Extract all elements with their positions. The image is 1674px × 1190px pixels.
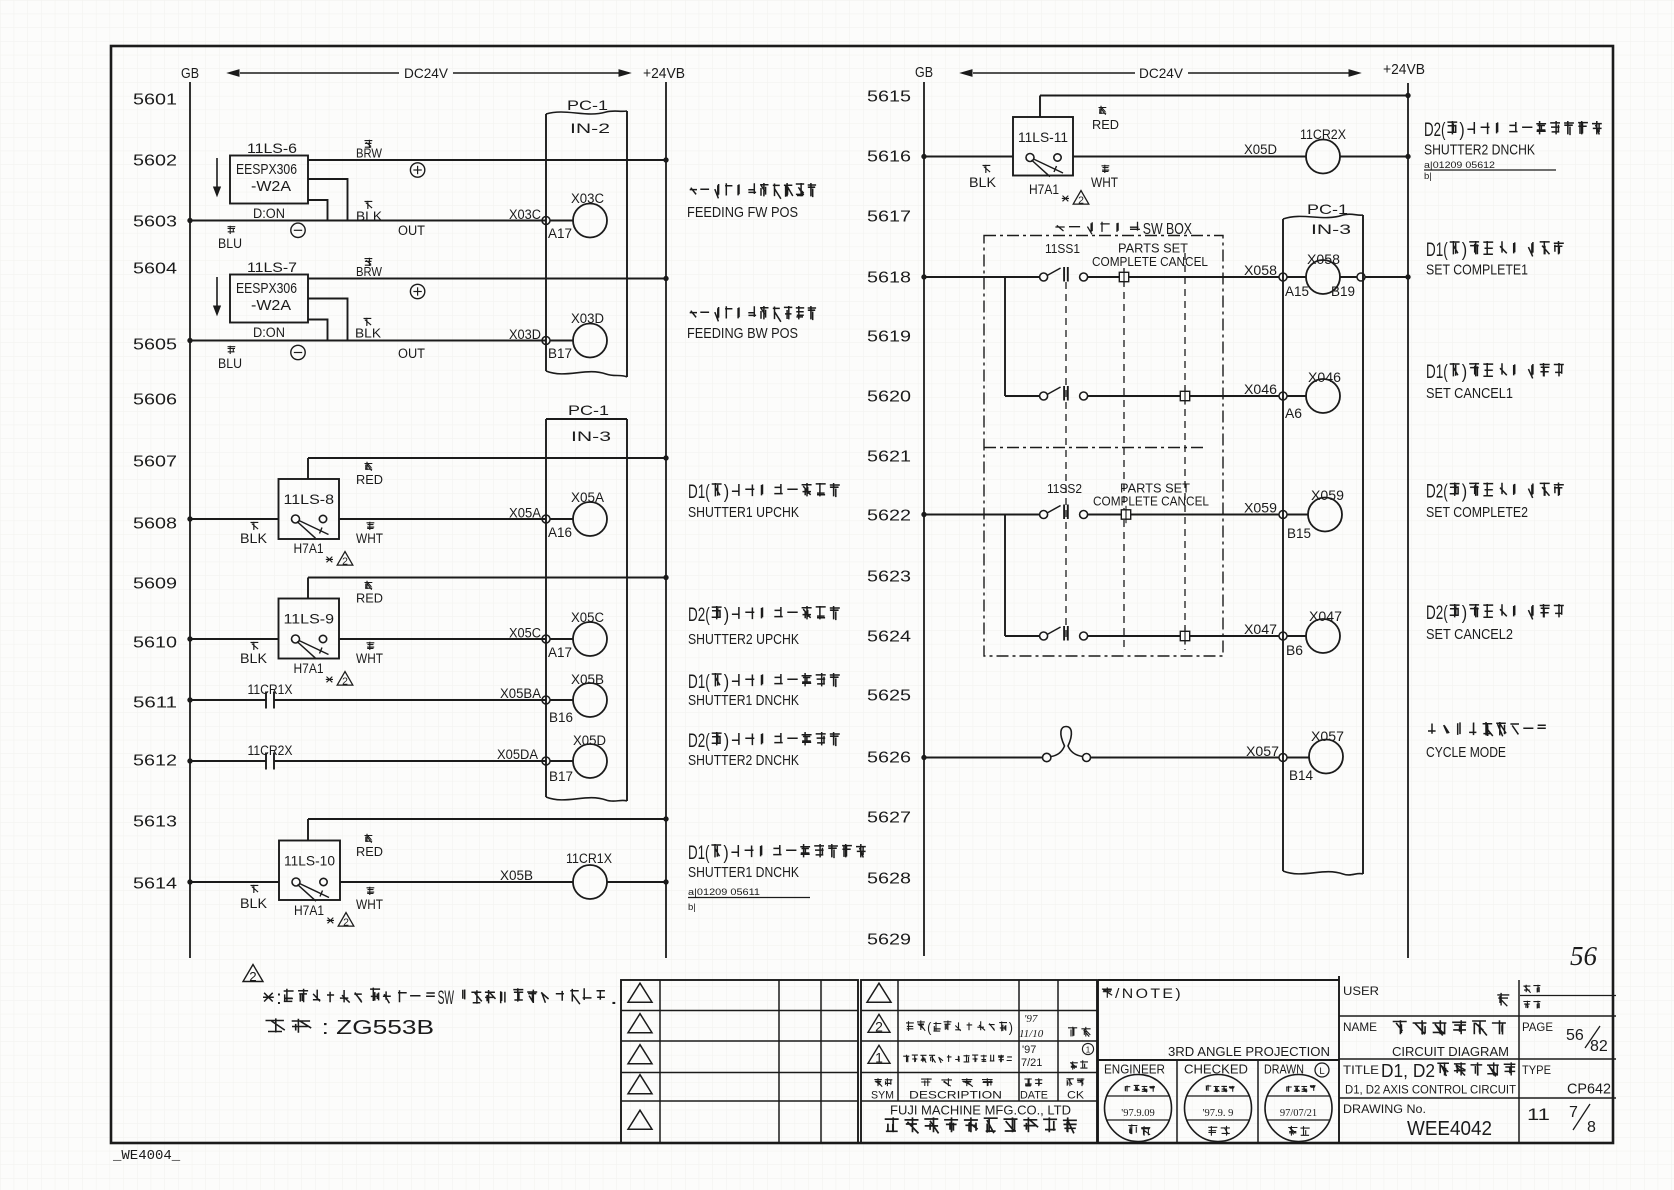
svg-text:A17: A17 bbox=[548, 226, 572, 241]
limit switch 11LS-11 (H7A1) bbox=[1013, 117, 1073, 176]
jumper loop (rung 5626) bbox=[1043, 753, 1051, 761]
connector PC-1 IN-2 bbox=[545, 114, 547, 371]
svg-text:SHUTTER2 UPCHK: SHUTTER2 UPCHK bbox=[688, 631, 799, 648]
svg-text:RED: RED bbox=[1092, 117, 1119, 132]
wire rung 5614 left (BLK) bbox=[190, 881, 279, 883]
svg-text:SET CANCEL1: SET CANCEL1 bbox=[1426, 385, 1513, 402]
svg-text:5610: 5610 bbox=[133, 635, 177, 652]
svg-text:2: 2 bbox=[342, 676, 348, 688]
revision table header SYM/DESCRIPTION/DATE/CK bbox=[874, 1078, 892, 1086]
svg-text:D1, D2: D1, D2 bbox=[1381, 1060, 1435, 1081]
svg-text:5623: 5623 bbox=[867, 569, 911, 586]
svg-text:DC24V: DC24V bbox=[404, 65, 449, 81]
revision triangle L5 bbox=[628, 1110, 652, 1129]
svg-text:SW: SW bbox=[438, 988, 454, 1009]
svg-text:1: 1 bbox=[1086, 1046, 1091, 1055]
svg-text:8: 8 bbox=[1587, 1119, 1596, 1136]
approval stamp \u6c5f\u5742 bbox=[1265, 1075, 1332, 1142]
note mark 2 (11LS-11) bbox=[1062, 196, 1069, 202]
svg-text:5629: 5629 bbox=[867, 932, 911, 949]
wire rung 5613 (RED) bbox=[308, 818, 666, 820]
svg-text:5612: 5612 bbox=[133, 753, 177, 770]
svg-text:OUT: OUT bbox=[398, 223, 425, 238]
svg-text:5611: 5611 bbox=[133, 695, 177, 712]
polarity mark + (5604) bbox=[410, 284, 424, 298]
svg-text:11CR1X: 11CR1X bbox=[566, 851, 612, 866]
svg-text:): ) bbox=[724, 731, 729, 752]
svg-text:X03C: X03C bbox=[509, 207, 541, 222]
svg-text:5609: 5609 bbox=[133, 576, 177, 593]
wire rung 5615 (RED) bbox=[1040, 95, 1408, 97]
svg-text:5615: 5615 bbox=[867, 89, 911, 106]
svg-text:): ) bbox=[724, 605, 729, 626]
function label SHUTTER1 UPCHK bbox=[712, 483, 840, 497]
svg-text:SET COMPLETE2: SET COMPLETE2 bbox=[1426, 504, 1528, 521]
svg-text:H7A1: H7A1 bbox=[294, 903, 324, 918]
svg-text:D1(: D1( bbox=[1426, 362, 1448, 383]
connector PC-1 IN-3 (right) bbox=[1282, 219, 1284, 871]
svg-text:11SS2: 11SS2 bbox=[1047, 481, 1082, 496]
function label SHUTTER2 DNCHK bbox=[712, 732, 840, 746]
function label FEEDING FW POS bbox=[690, 183, 816, 199]
svg-text:2: 2 bbox=[1078, 195, 1084, 207]
svg-text:5606: 5606 bbox=[133, 392, 177, 409]
connector PC-1 IN-3 (left) bbox=[546, 418, 627, 420]
svg-text:CYCLE MODE: CYCLE MODE bbox=[1426, 744, 1506, 761]
svg-text:D:ON: D:ON bbox=[253, 206, 285, 221]
handwritten note line 2 bbox=[266, 1018, 312, 1032]
svg-text:D2(: D2( bbox=[688, 605, 710, 626]
handwritten note line 1 bbox=[263, 988, 605, 1005]
approval stamp \u8db3\u7acb bbox=[1105, 1075, 1172, 1142]
svg-text:11LS-7: 11LS-7 bbox=[247, 259, 297, 275]
svg-text:): ) bbox=[1462, 362, 1467, 383]
wire rung 5608 left (BLK) bbox=[190, 518, 279, 520]
svg-text:5618: 5618 bbox=[867, 270, 911, 287]
svg-text:SHUTTER1 UPCHK: SHUTTER1 UPCHK bbox=[688, 504, 799, 521]
svg-text:-W2A: -W2A bbox=[251, 178, 291, 195]
wire rung 5602 (BRW) bbox=[308, 159, 666, 161]
function label CYCLE MODE bbox=[1428, 722, 1546, 736]
svg-text:11LS-11: 11LS-11 bbox=[1018, 129, 1068, 145]
limit switch 11LS-8 (H7A1) bbox=[279, 479, 340, 539]
wire rung 5622 bbox=[924, 514, 1040, 516]
wire rung 5616 left (BLK) bbox=[924, 156, 1013, 158]
svg-text:GB: GB bbox=[915, 65, 933, 81]
svg-text:5621: 5621 bbox=[867, 449, 911, 466]
svg-text:B16: B16 bbox=[549, 710, 573, 725]
svg-text:B15: B15 bbox=[1287, 526, 1311, 541]
svg-text:56: 56 bbox=[1570, 941, 1598, 971]
svg-text:'97: '97 bbox=[1024, 1013, 1038, 1025]
svg-text:5626: 5626 bbox=[867, 750, 911, 767]
approval stamp \u5c71\u672c bbox=[1185, 1075, 1252, 1142]
svg-text:X059: X059 bbox=[1244, 501, 1277, 516]
wire rung 5608 right (WHT) bbox=[339, 518, 546, 520]
wire rung 5609 (RED) bbox=[308, 577, 666, 579]
svg-text:X05D: X05D bbox=[573, 733, 606, 748]
svg-text:-W2A: -W2A bbox=[251, 297, 291, 314]
svg-text:): ) bbox=[724, 482, 729, 503]
svg-text:H7A1: H7A1 bbox=[294, 541, 324, 556]
svg-text:PAGE: PAGE bbox=[1522, 1020, 1553, 1034]
svg-text:5604: 5604 bbox=[133, 261, 177, 278]
svg-text:D1(: D1( bbox=[1426, 240, 1448, 261]
svg-text:FUJI MACHINE MFG.CO., LTD: FUJI MACHINE MFG.CO., LTD bbox=[890, 1103, 1071, 1118]
svg-text:EESPX306: EESPX306 bbox=[236, 280, 297, 297]
svg-text:X05DA: X05DA bbox=[497, 747, 538, 762]
svg-text:PC-1: PC-1 bbox=[1307, 201, 1348, 217]
branch wire 5622-5624 bbox=[1004, 515, 1006, 637]
svg-text:WHT: WHT bbox=[356, 531, 383, 546]
svg-text:NAME: NAME bbox=[1343, 1020, 1377, 1034]
svg-text:SHUTTER1 DNCHK: SHUTTER1 DNCHK bbox=[688, 864, 799, 881]
svg-text:7: 7 bbox=[1569, 1104, 1578, 1121]
svg-text:5607: 5607 bbox=[133, 454, 177, 471]
svg-text:FEEDING BW POS: FEEDING BW POS bbox=[687, 325, 798, 342]
svg-text:1: 1 bbox=[875, 1050, 883, 1066]
note mark triangle 2 (bottom note) bbox=[243, 965, 263, 982]
svg-text:): ) bbox=[724, 672, 729, 693]
svg-text:WEE4042: WEE4042 bbox=[1407, 1118, 1492, 1140]
svg-text:BLK: BLK bbox=[969, 175, 996, 190]
svg-text:PC-1: PC-1 bbox=[568, 402, 609, 418]
svg-text:RED: RED bbox=[356, 844, 383, 859]
svg-text:5622: 5622 bbox=[867, 508, 911, 525]
mechanical link dashed lines (11SS1/11SS2) bbox=[1065, 282, 1067, 638]
svg-text:SHUTTER1 DNCHK: SHUTTER1 DNCHK bbox=[688, 692, 799, 709]
svg-text:TYPE: TYPE bbox=[1522, 1063, 1551, 1077]
wire rung 5607 (RED) bbox=[308, 457, 666, 459]
svg-text:BLU: BLU bbox=[218, 356, 242, 371]
svg-text:2: 2 bbox=[249, 969, 256, 984]
svg-text:A15: A15 bbox=[1285, 284, 1309, 299]
svg-text:11LS-10: 11LS-10 bbox=[284, 853, 335, 869]
svg-text:5601: 5601 bbox=[133, 92, 177, 109]
svg-text:a|01209 05612: a|01209 05612 bbox=[1424, 160, 1495, 171]
svg-text:IN-3: IN-3 bbox=[571, 428, 611, 444]
svg-text:BLU: BLU bbox=[218, 236, 242, 251]
svg-text:11CR1X: 11CR1X bbox=[248, 682, 293, 697]
svg-text:X05D: X05D bbox=[1244, 142, 1277, 157]
svg-text:B19: B19 bbox=[1331, 284, 1355, 299]
function label SET COMPLETE2 bbox=[1450, 483, 1564, 498]
svg-text:OUT: OUT bbox=[398, 346, 425, 361]
svg-text:5627: 5627 bbox=[867, 810, 911, 827]
svg-text:): ) bbox=[1462, 240, 1467, 261]
function label SHUTTER2 DNCHK aux bbox=[1447, 121, 1601, 135]
svg-text:B6: B6 bbox=[1286, 643, 1303, 658]
svg-text:(: ( bbox=[927, 1020, 932, 1035]
wire junction dots bbox=[188, 218, 193, 223]
svg-text:5624: 5624 bbox=[867, 629, 911, 646]
cartridge SW BOX enclosure (chain line) bbox=[984, 236, 1223, 657]
svg-text:GB: GB bbox=[181, 66, 199, 82]
svg-text:'97.9.09: '97.9.09 bbox=[1121, 1108, 1154, 1119]
svg-text:D1(: D1( bbox=[688, 482, 710, 503]
svg-text:): ) bbox=[1462, 603, 1467, 624]
svg-text:5602: 5602 bbox=[133, 153, 177, 170]
selector contact 11SS2 COMPLETE (rung 5622) bbox=[1040, 511, 1048, 519]
svg-text:WHT: WHT bbox=[356, 897, 383, 912]
svg-text:A16: A16 bbox=[548, 525, 572, 540]
svg-text:b|: b| bbox=[1424, 171, 1432, 182]
svg-text:BLK: BLK bbox=[240, 896, 267, 911]
svg-text:EESPX306: EESPX306 bbox=[236, 161, 297, 178]
svg-text:D1, D2 AXIS CONTROL CIRCUIT: D1, D2 AXIS CONTROL CIRCUIT bbox=[1345, 1083, 1517, 1097]
svg-text:IN-2: IN-2 bbox=[570, 120, 610, 136]
svg-text:CIRCUIT DIAGRAM: CIRCUIT DIAGRAM bbox=[1392, 1045, 1509, 1059]
function label SET CANCEL1 bbox=[1450, 363, 1564, 378]
svg-text:X03D: X03D bbox=[509, 327, 541, 342]
svg-text:11: 11 bbox=[1527, 1105, 1550, 1124]
svg-text:PC-1: PC-1 bbox=[567, 97, 608, 113]
svg-text:b|: b| bbox=[688, 902, 696, 913]
DC24V supply arrow (right) bbox=[973, 72, 1135, 74]
function label SET CANCEL2 bbox=[1450, 604, 1564, 619]
svg-text:B17: B17 bbox=[548, 346, 572, 361]
wire rung 5604 (BRW) bbox=[308, 278, 666, 280]
svg-text:11CR2X: 11CR2X bbox=[248, 743, 293, 758]
revision triangle L1 bbox=[628, 983, 652, 1002]
svg-text:5608: 5608 bbox=[133, 516, 177, 533]
revision 2 entry bbox=[868, 1014, 890, 1032]
svg-text:A6: A6 bbox=[1285, 406, 1302, 421]
svg-text:5628: 5628 bbox=[867, 871, 911, 888]
function label SHUTTER2 UPCHK bbox=[712, 606, 840, 620]
svg-text:11LS-8: 11LS-8 bbox=[284, 491, 335, 507]
svg-text:D1(: D1( bbox=[688, 672, 710, 693]
selector contact 11SS1 CANCEL (rung 5620) bbox=[1040, 392, 1048, 400]
svg-text:97/07/21: 97/07/21 bbox=[1280, 1108, 1317, 1119]
polarity mark + (5602) bbox=[410, 163, 424, 177]
title block: revision table right bbox=[861, 980, 1097, 1143]
wire rung 5618 bbox=[924, 276, 1040, 278]
note mark 2 (11LS-10) bbox=[327, 918, 334, 924]
limit switch 11LS-9 (H7A1) bbox=[279, 599, 340, 659]
function label SHUTTER1 DNCHK bbox=[712, 673, 840, 687]
svg-text:): ) bbox=[1009, 1020, 1013, 1035]
polarity mark - (5603) bbox=[291, 223, 305, 237]
svg-text:TITLE: TITLE bbox=[1343, 1063, 1379, 1077]
svg-text:2: 2 bbox=[343, 917, 349, 929]
svg-text:WHT: WHT bbox=[1091, 175, 1118, 190]
svg-text:USER: USER bbox=[1343, 984, 1379, 998]
svg-text:COMPLETE CANCEL: COMPLETE CANCEL bbox=[1092, 254, 1208, 269]
DC24V supply arrow (left) bbox=[240, 72, 399, 74]
wire rung 5616 right (WHT) bbox=[1073, 156, 1306, 158]
svg-text:3RD ANGLE PROJECTION: 3RD ANGLE PROJECTION bbox=[1168, 1044, 1330, 1059]
svg-text:SYM: SYM bbox=[871, 1090, 894, 1102]
svg-text:X05BA: X05BA bbox=[500, 686, 541, 701]
svg-text:5614: 5614 bbox=[133, 876, 177, 893]
revision 1 entry bbox=[868, 1045, 890, 1063]
svg-text:82: 82 bbox=[1590, 1038, 1608, 1055]
svg-text:BLK: BLK bbox=[240, 531, 267, 546]
svg-text:5603: 5603 bbox=[133, 214, 177, 231]
selector contact 11SS1 COMPLETE (rung 5618) bbox=[1040, 273, 1048, 281]
svg-text:2: 2 bbox=[875, 1019, 883, 1035]
svg-text:): ) bbox=[1462, 482, 1467, 503]
svg-text:D1(: D1( bbox=[688, 843, 710, 864]
svg-text:SHUTTER2 DNCHK: SHUTTER2 DNCHK bbox=[688, 752, 799, 769]
svg-text:H7A1: H7A1 bbox=[294, 661, 324, 676]
svg-text:DATE: DATE bbox=[1020, 1090, 1048, 1102]
svg-text:5620: 5620 bbox=[867, 389, 911, 406]
limit switch 11LS-10 (H7A1) bbox=[279, 841, 340, 901]
svg-text::: : bbox=[276, 988, 282, 1009]
svg-text:A17: A17 bbox=[548, 645, 572, 660]
svg-text:DRAWING No.: DRAWING No. bbox=[1343, 1102, 1426, 1116]
svg-text:5616: 5616 bbox=[867, 149, 911, 166]
svg-text:X057: X057 bbox=[1246, 744, 1279, 759]
svg-text:BRW: BRW bbox=[356, 146, 383, 161]
wire rung 5603 (BLK OUT) bbox=[190, 220, 546, 222]
svg-text:L: L bbox=[1319, 1066, 1324, 1077]
svg-text:BRW: BRW bbox=[356, 264, 383, 279]
branch wire 5618-5620 bbox=[1004, 277, 1006, 396]
wire rung 5610 right (WHT) bbox=[339, 638, 546, 640]
svg-text:RED: RED bbox=[356, 472, 383, 487]
svg-text:11SS1: 11SS1 bbox=[1045, 241, 1080, 256]
svg-text:SW BOX: SW BOX bbox=[1143, 221, 1193, 238]
svg-text:B17: B17 bbox=[549, 769, 573, 784]
svg-text:'97: '97 bbox=[1022, 1044, 1036, 1056]
svg-text:5613: 5613 bbox=[133, 814, 177, 831]
svg-text:: ZG553B: : ZG553B bbox=[314, 1017, 434, 1039]
svg-text:5605: 5605 bbox=[133, 337, 177, 354]
svg-text:BLK: BLK bbox=[240, 651, 267, 666]
svg-text:56: 56 bbox=[1566, 1027, 1584, 1044]
function label FEEDING BW POS bbox=[690, 306, 816, 322]
wire color label BLU (5603) bbox=[228, 226, 236, 234]
svg-text:DC24V: DC24V bbox=[1139, 65, 1184, 81]
svg-text:): ) bbox=[723, 843, 728, 864]
svg-text:COMPLETE CANCEL: COMPLETE CANCEL bbox=[1093, 494, 1209, 509]
cam symbol (rung 5620) bbox=[1180, 391, 1189, 400]
svg-text:X047: X047 bbox=[1244, 622, 1277, 637]
svg-text:X05A: X05A bbox=[509, 506, 541, 521]
svg-text:D:ON: D:ON bbox=[253, 325, 285, 340]
revision triangle L3 bbox=[628, 1045, 652, 1064]
svg-text:11LS-6: 11LS-6 bbox=[247, 140, 297, 156]
function label SET COMPLETE1 bbox=[1450, 241, 1564, 256]
svg-text:/NOTE): /NOTE) bbox=[1115, 986, 1183, 1001]
svg-text:H7A1: H7A1 bbox=[1029, 182, 1059, 197]
svg-text:_WE4004_: _WE4004_ bbox=[112, 1148, 181, 1164]
cam symbol (rung 5624) bbox=[1180, 631, 1189, 640]
svg-text:D2(: D2( bbox=[688, 731, 710, 752]
cam symbol (rung 5622) bbox=[1121, 510, 1130, 519]
svg-text:X046: X046 bbox=[1244, 382, 1277, 397]
svg-text:CK: CK bbox=[1067, 1090, 1085, 1102]
approval row engineer/checked/drawn bbox=[1098, 1059, 1339, 1061]
svg-text:11/10: 11/10 bbox=[1019, 1028, 1044, 1040]
svg-text:5617: 5617 bbox=[867, 209, 911, 226]
wire rung 5620 bbox=[1005, 395, 1040, 397]
svg-text:DESCRIPTION: DESCRIPTION bbox=[909, 1090, 1002, 1102]
svg-text:): ) bbox=[1459, 120, 1464, 141]
svg-text:D2(: D2( bbox=[1426, 603, 1448, 624]
note mark 2 (11LS-8) bbox=[326, 557, 333, 563]
svg-text:D2(: D2( bbox=[1424, 120, 1446, 141]
svg-text:11LS-9: 11LS-9 bbox=[284, 611, 335, 627]
revision triangle R1 bbox=[867, 983, 891, 1002]
wire rung 5605 (BLK OUT) bbox=[190, 340, 546, 342]
svg-text:X05C: X05C bbox=[509, 626, 541, 641]
svg-text:5625: 5625 bbox=[867, 688, 911, 705]
wire rung 5614 right (WHT) bbox=[340, 881, 573, 883]
revision triangle L4 bbox=[628, 1075, 652, 1094]
svg-text:+24VB: +24VB bbox=[1383, 62, 1425, 78]
function label SHUTTER1 DNCHK aux bbox=[711, 844, 865, 858]
svg-text:+24VB: +24VB bbox=[643, 66, 685, 82]
svg-text:.: . bbox=[610, 988, 618, 1009]
svg-text:CP642: CP642 bbox=[1567, 1082, 1611, 1098]
svg-text:D2(: D2( bbox=[1426, 482, 1448, 503]
svg-text:BLK: BLK bbox=[355, 326, 381, 341]
wire color label BLU (5605) bbox=[228, 346, 236, 354]
svg-text:SET COMPLETE1: SET COMPLETE1 bbox=[1426, 262, 1528, 279]
note section bbox=[1097, 980, 1099, 1143]
revision triangle L2 bbox=[628, 1014, 652, 1033]
svg-text:B14: B14 bbox=[1289, 768, 1313, 783]
title block: revision table left bbox=[621, 980, 858, 1143]
polarity mark - (5605) bbox=[291, 345, 305, 359]
svg-text:WHT: WHT bbox=[356, 651, 383, 666]
svg-text:5619: 5619 bbox=[867, 329, 911, 346]
svg-text:'97.9. 9: '97.9. 9 bbox=[1203, 1108, 1234, 1119]
svg-text:X058: X058 bbox=[1244, 263, 1277, 278]
svg-text:X05B: X05B bbox=[500, 868, 533, 883]
wire rung 5624 bbox=[1005, 635, 1040, 637]
wire rung 5610 left (BLK) bbox=[190, 638, 279, 640]
wire rung 5626 bbox=[924, 757, 1042, 759]
svg-text:2: 2 bbox=[342, 556, 348, 568]
note mark 2 (11LS-9) bbox=[326, 677, 333, 683]
svg-text:BLK: BLK bbox=[356, 209, 382, 224]
svg-text:a|01209 05611: a|01209 05611 bbox=[688, 887, 760, 898]
selector contact 11SS2 CANCEL (rung 5624) bbox=[1040, 632, 1048, 640]
svg-text:RED: RED bbox=[356, 591, 383, 606]
svg-text:SET CANCEL2: SET CANCEL2 bbox=[1426, 626, 1513, 643]
cam symbol (rung 5618) bbox=[1088, 276, 1279, 278]
svg-text:SHUTTER2 DNCHK: SHUTTER2 DNCHK bbox=[1424, 142, 1535, 159]
svg-text:7/21: 7/21 bbox=[1021, 1057, 1042, 1069]
svg-text:FEEDING FW POS: FEEDING FW POS bbox=[687, 204, 798, 221]
svg-text:IN-3: IN-3 bbox=[1311, 221, 1351, 237]
